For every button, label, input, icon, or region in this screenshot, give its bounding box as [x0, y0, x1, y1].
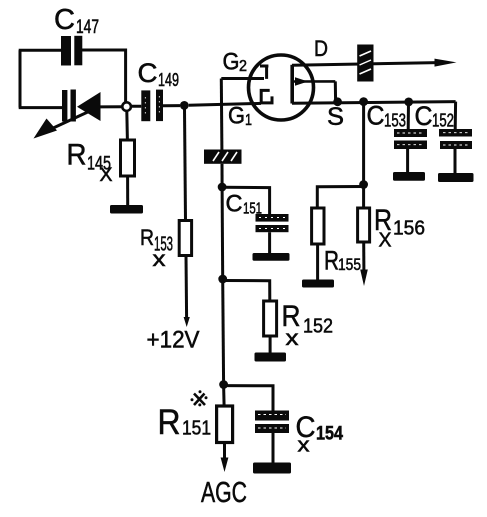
svg-text:1: 1 [245, 112, 252, 129]
svg-text:152: 152 [432, 111, 454, 131]
svg-text:156: 156 [393, 218, 425, 240]
svg-text:2: 2 [239, 58, 247, 75]
varactor diode D (plates) [62, 90, 76, 122]
svg-text:153: 153 [384, 111, 406, 131]
wire S branch vertical [362, 102, 365, 185]
svg-text:C: C [415, 101, 433, 131]
wire top loop left vertical [19, 50, 22, 107]
node junction dot [180, 101, 189, 110]
arrow below R156 [360, 270, 368, 287]
ground (R145) [110, 205, 143, 214]
wire C154 branch [224, 386, 273, 411]
wire C149 to node [163, 104, 180, 107]
wire varactor left [19, 106, 62, 109]
wire R155 branch [317, 187, 363, 209]
node junction [359, 180, 368, 189]
svg-text:C: C [54, 4, 75, 36]
wire C153 branch [407, 102, 410, 129]
svg-text:x: x [153, 248, 167, 271]
arrow D output [435, 59, 457, 67]
svg-text:151: 151 [243, 201, 262, 218]
wire C152 to ground [454, 149, 457, 173]
resistor R156 [358, 208, 370, 242]
capacitor C152 [439, 129, 472, 149]
node junction [218, 183, 227, 192]
resistor R145 [121, 140, 135, 176]
wire R155 to ground [316, 244, 319, 280]
node junction [219, 380, 228, 389]
label asterisk (R151) [191, 390, 208, 406]
wire C154 to ground [272, 433, 275, 463]
svg-text:C: C [138, 58, 158, 88]
svg-text:R: R [324, 246, 339, 276]
svg-text:154: 154 [316, 424, 343, 445]
svg-text:155: 155 [338, 255, 361, 274]
mosfet substrate arrow [294, 77, 336, 102]
wire R156 top [362, 185, 365, 209]
wire C152 branch [454, 102, 457, 129]
mosfet gate G2 electrode [221, 66, 268, 79]
wire G2 vertical [220, 79, 224, 150]
wire C153 to ground [406, 149, 409, 172]
varactor triangle [77, 92, 101, 121]
ferrite bead on G2 [204, 150, 242, 164]
wire R156 to arrow [362, 242, 365, 271]
svg-text:D: D [314, 36, 328, 61]
wire R153 branch [185, 109, 186, 221]
svg-text:+12V: +12V [147, 327, 200, 354]
wire varactor to node [99, 105, 122, 108]
ground (R152) [255, 353, 287, 362]
capacitor C147 [61, 36, 82, 66]
ground (C154) [253, 463, 291, 474]
wire center vertical lower [221, 279, 225, 385]
svg-text:AGC: AGC [201, 477, 247, 509]
wire source / S line [292, 102, 456, 104]
resistor R151 [217, 406, 233, 443]
wire center vertical [221, 187, 225, 279]
arrow to +12V [184, 317, 190, 327]
ground (C152) [438, 173, 474, 182]
wire C151 branch [222, 187, 270, 214]
wire drain lead / D line [292, 63, 437, 66]
node S junction [333, 97, 342, 106]
svg-text:X: X [379, 230, 392, 252]
svg-text:R: R [67, 139, 87, 172]
wire top loop upper left [19, 49, 61, 52]
mosfet gate G1 electrode [261, 90, 272, 103]
wire C151 to ground [268, 232, 271, 253]
wire R151 top [222, 385, 226, 406]
capacitor C153 [394, 129, 427, 149]
svg-text:149: 149 [158, 70, 179, 90]
svg-text:152: 152 [303, 316, 333, 338]
svg-text:151: 151 [182, 418, 211, 440]
capacitor C149 [141, 90, 163, 122]
wire G1 main lead [189, 103, 261, 105]
wire R153 to +12V [185, 256, 189, 319]
svg-text:R: R [158, 403, 181, 442]
svg-text:x: x [298, 435, 310, 457]
varactor tuning arrow [34, 111, 92, 139]
svg-text:X: X [100, 165, 113, 186]
svg-text:147: 147 [76, 17, 99, 38]
wire R145 branch [125, 111, 129, 140]
wire R145 to ground [126, 176, 129, 205]
ground (C153) [393, 172, 425, 181]
svg-text:R: R [140, 225, 154, 250]
wire R152 to ground [269, 336, 272, 353]
ferrite bead on drain [357, 45, 373, 82]
arrow AGC [221, 458, 229, 473]
node junction [359, 97, 368, 106]
wire bead to node [221, 164, 224, 187]
svg-text:S: S [327, 103, 344, 131]
wire R152 branch [223, 281, 270, 302]
wire top loop upper right [82, 50, 126, 102]
node junction [218, 275, 227, 284]
mosfet channel [290, 65, 294, 104]
resistor R155 [312, 208, 324, 244]
mosfet U1 body [249, 55, 314, 120]
capacitor C154 [255, 411, 289, 434]
svg-text:G: G [228, 103, 245, 130]
svg-text:x: x [286, 327, 300, 350]
capacitor C151 [256, 214, 289, 232]
resistor R153 [179, 221, 191, 256]
ground (R155) [302, 280, 334, 288]
wire node to C149 [131, 105, 141, 108]
node junction [404, 98, 413, 107]
node terminal (open circle) [122, 102, 131, 111]
resistor R152 [264, 301, 277, 336]
wire R151 to AGC arrow [223, 443, 226, 460]
svg-text:G: G [223, 49, 240, 76]
ground (C151) [253, 253, 290, 261]
svg-text:C: C [367, 101, 385, 131]
svg-text:C: C [226, 191, 243, 218]
